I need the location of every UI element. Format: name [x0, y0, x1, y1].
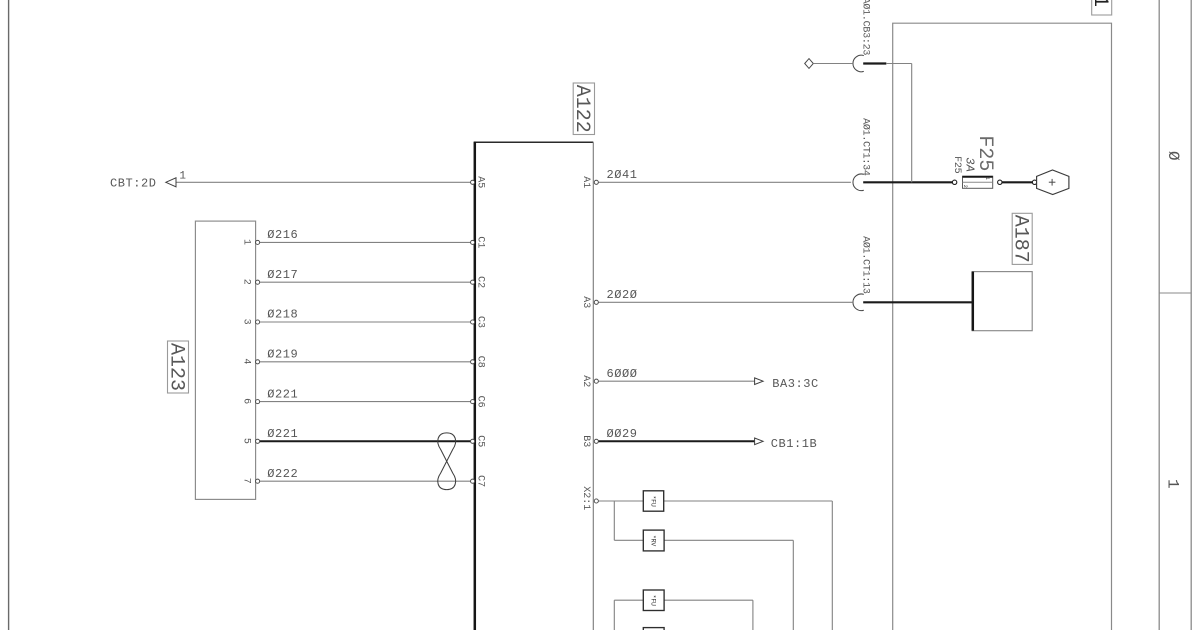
svg-text:4: 4: [241, 358, 252, 364]
svg-text:Ø222: Ø222: [267, 467, 298, 481]
wire row 3: [614, 599, 753, 601]
svg-text:1: 1: [179, 170, 186, 182]
svg-text:5: 5: [241, 438, 252, 444]
svg-text:2Ø2Ø: 2Ø2Ø: [607, 288, 638, 302]
pin A5: [471, 180, 475, 184]
svg-text:X2:1: X2:1: [580, 486, 591, 510]
connector A122 label box: [573, 83, 594, 135]
svg-text:B3: B3: [580, 435, 591, 447]
svg-text:3: 3: [241, 319, 252, 325]
A122 pin C3: [471, 320, 475, 324]
svg-text:Ø221: Ø221: [267, 387, 298, 401]
inline connector A01.CB3:23: [853, 55, 864, 72]
svg-text:A5: A5: [475, 176, 486, 188]
svg-text:A122: A122: [570, 85, 593, 133]
filter *FU 2: [643, 590, 664, 611]
frame divider: [1159, 292, 1191, 294]
svg-text:ØØ29: ØØ29: [607, 427, 638, 441]
component A187 label box: [1012, 213, 1032, 264]
wire 0221 A123:5 to A122:C5: [260, 440, 471, 442]
svg-text:C5: C5: [475, 435, 486, 447]
destination arrow CBT:2D: [166, 178, 176, 187]
A123 pin 5: [256, 439, 260, 443]
node diamond: [805, 59, 814, 69]
wire 2020 A122:A3 to A187: [598, 301, 852, 303]
pin A1: [594, 180, 598, 184]
svg-text:6ØØØ: 6ØØØ: [607, 367, 638, 381]
wire 0218 A123:3 to A122:C3: [260, 321, 471, 323]
svg-text:BA3:3C: BA3:3C: [772, 377, 819, 391]
svg-text:Ø216: Ø216: [267, 228, 298, 242]
svg-text:C2: C2: [475, 276, 486, 288]
A122 pin C2: [471, 280, 475, 284]
left page border: [8, 0, 10, 630]
drop wire right of row3: [752, 600, 754, 630]
svg-text:AØ1.CB3:23: AØ1.CB3:23: [859, 0, 871, 55]
top-right sheet label box 1: [1092, 0, 1112, 15]
svg-text:A187: A187: [1009, 215, 1032, 263]
wire 0221 A123:6 to A122:C6: [260, 401, 471, 403]
svg-text:2Ø41: 2Ø41: [607, 168, 638, 182]
wire 0216 A123:1 to A122:C1: [260, 241, 471, 243]
svg-text:Ø218: Ø218: [267, 308, 298, 322]
connector A123 label box: [168, 341, 189, 393]
right frame column: [1158, 0, 1160, 630]
svg-text:1: 1: [1164, 479, 1182, 489]
svg-text:CB1:1B: CB1:1B: [771, 437, 818, 451]
filter *FU 1: [643, 491, 663, 511]
A122 pin C1: [471, 240, 475, 244]
svg-text:*FU: *FU: [649, 495, 656, 506]
A122 pin C6: [471, 400, 475, 404]
svg-text:*RV: *RV: [649, 535, 656, 546]
svg-text:C1: C1: [475, 236, 486, 248]
component A187 body: [972, 272, 1032, 331]
svg-text:7: 7: [241, 478, 252, 484]
A122 pin C7: [471, 479, 475, 483]
inline connector A01.CT1:13: [853, 294, 864, 311]
svg-text:Ø217: Ø217: [267, 268, 298, 282]
destination arrow BA3:3C: [755, 378, 764, 385]
branch vertical rows3-4: [613, 600, 615, 630]
wire 0217 A123:2 to A122:C2: [260, 281, 471, 283]
A123 pin 6: [256, 400, 260, 404]
wire 6000 A122:A2 to BA3:3C: [598, 380, 754, 382]
svg-text:Ø: Ø: [1164, 151, 1182, 161]
filter box 4 (clipped): [643, 628, 664, 630]
A123 pin 1: [256, 240, 260, 244]
wire row 2: [614, 539, 793, 541]
pin A3: [594, 300, 598, 304]
wire 2041 thick to fuse: [863, 181, 952, 183]
svg-text:Ø219: Ø219: [267, 348, 298, 362]
svg-text:2: 2: [962, 185, 968, 188]
wire 0222 A123:7 to A122:C7: [260, 480, 471, 482]
branch vertical rows1-2: [613, 501, 615, 540]
connector A123 body: [195, 221, 255, 499]
svg-text:6: 6: [241, 398, 252, 404]
drop wire right of row2: [792, 540, 794, 630]
svg-text:C7: C7: [475, 475, 486, 487]
svg-text:2: 2: [241, 279, 252, 285]
wire 0219 A123:4 to A122:C8: [260, 361, 471, 363]
svg-text:A1: A1: [580, 176, 591, 188]
wire 0029 A122:B3 to CB1:1B: [598, 440, 754, 442]
battery positive supply symbol: [1032, 180, 1036, 184]
svg-text:AØ1.CT1:34: AØ1.CT1:34: [859, 118, 871, 176]
A123 pin 7: [256, 479, 260, 483]
wire fuse to battery: [1002, 181, 1033, 183]
destination arrow CB1:1B: [755, 438, 764, 445]
svg-text:CBT:2D: CBT:2D: [110, 177, 157, 191]
svg-text:F25: F25: [973, 135, 996, 171]
A122 pin C8: [471, 360, 475, 364]
svg-text:A123: A123: [164, 343, 187, 391]
svg-text:*FU: *FU: [649, 595, 656, 606]
svg-text:C6: C6: [475, 396, 486, 408]
fuse F25: [952, 180, 956, 184]
A122 pin C5: [471, 439, 475, 443]
wire 2041 A122:A1 to splice: [598, 181, 851, 183]
svg-text:C3: C3: [475, 316, 486, 328]
inline connector A01.CT1:34: [853, 174, 864, 191]
A123 pin 2: [256, 280, 260, 284]
enclosure box A01 (large right box): [893, 23, 1112, 630]
svg-text:1: 1: [1088, 0, 1111, 7]
svg-text:A3: A3: [580, 296, 591, 308]
varistor *RV: [643, 530, 664, 551]
svg-text:1: 1: [984, 177, 990, 180]
connector A122 body: [474, 141, 593, 143]
drop wire right of row1: [831, 501, 833, 630]
A123 pin 4: [256, 360, 260, 364]
svg-text:AØ1.CT1:13: AØ1.CT1:13: [859, 236, 871, 294]
svg-text:Ø221: Ø221: [267, 427, 298, 441]
twisted-pair symbol on wires 0221/0222: [438, 433, 456, 490]
wire row 1 from A122:X2.1: [598, 500, 832, 502]
pin X2:1: [594, 499, 598, 503]
pin B3: [594, 439, 598, 443]
svg-text:A2: A2: [580, 375, 591, 387]
svg-text:C8: C8: [475, 356, 486, 368]
wire CBT:2D to A122:A5: [176, 181, 471, 183]
pin A2: [594, 379, 598, 383]
wire branch down to 2041 net: [911, 64, 913, 183]
svg-text:F25: F25: [951, 156, 962, 174]
A123 pin 3: [256, 320, 260, 324]
svg-text:1: 1: [241, 239, 252, 245]
